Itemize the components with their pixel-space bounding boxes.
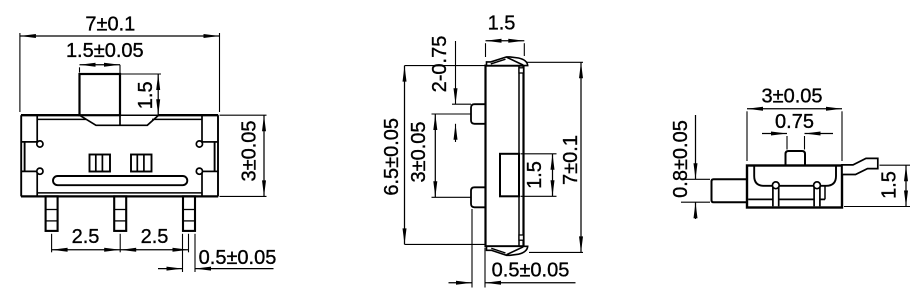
svg-text:2.5: 2.5 (141, 226, 169, 248)
svg-text:0.75: 0.75 (775, 111, 814, 133)
svg-text:1.5: 1.5 (879, 171, 901, 199)
svg-text:2-0.75: 2-0.75 (429, 36, 451, 93)
svg-text:0.5±0.05: 0.5±0.05 (492, 260, 570, 282)
svg-text:6.5±0.05: 6.5±0.05 (381, 118, 403, 196)
svg-text:1.5: 1.5 (488, 13, 516, 35)
svg-text:2.5: 2.5 (72, 226, 100, 248)
svg-text:7±0.1: 7±0.1 (560, 135, 582, 185)
svg-text:0.5±0.05: 0.5±0.05 (199, 247, 277, 269)
svg-text:3±0.05: 3±0.05 (761, 85, 822, 107)
svg-text:1.5: 1.5 (524, 161, 546, 189)
svg-text:1.5: 1.5 (135, 81, 157, 109)
svg-text:7±0.1: 7±0.1 (85, 13, 135, 35)
svg-text:1.5±0.05: 1.5±0.05 (66, 40, 144, 62)
svg-text:0.8±0.05: 0.8±0.05 (670, 120, 692, 198)
svg-text:3±0.05: 3±0.05 (238, 120, 260, 181)
svg-text:3±0.05: 3±0.05 (408, 121, 430, 182)
